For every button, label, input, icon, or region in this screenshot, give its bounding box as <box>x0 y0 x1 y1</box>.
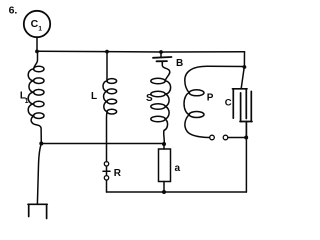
wire: C1 to top bus <box>36 38 38 52</box>
junction dot on right bus at P tap <box>243 65 247 69</box>
svg-text:B: B <box>176 58 183 69</box>
junction dot at box bottom <box>162 190 166 194</box>
svg-text:S: S <box>146 93 153 104</box>
svg-text:C: C <box>225 98 232 109</box>
svg-text:P: P <box>207 92 214 103</box>
junction dot at L1 bottom <box>39 142 43 146</box>
capacitor B <box>153 52 172 64</box>
inductor L1 <box>28 51 44 143</box>
resistor box a <box>159 144 171 192</box>
wire: top horizontal bus <box>37 50 245 53</box>
svg-text:R: R <box>114 168 122 179</box>
wire: ground stem <box>37 144 41 204</box>
svg-text:6.: 6. <box>9 5 18 17</box>
wire: terminal to right bus <box>228 137 246 139</box>
wire: middle horizontal <box>40 143 164 145</box>
svg-text:1: 1 <box>25 98 29 105</box>
meter C1 (circle symbol) <box>24 11 50 37</box>
terminal circle at P end <box>210 135 215 140</box>
junction dot on right bus at terminals <box>244 136 248 140</box>
wire: right bus lower <box>245 138 247 193</box>
svg-text:L: L <box>91 91 97 102</box>
terminal circle at switch gap <box>223 135 228 140</box>
capacitor C <box>233 89 253 138</box>
ground electrode symbol <box>28 204 47 218</box>
junction dot node at B <box>159 50 163 54</box>
detector R <box>103 144 110 193</box>
svg-text:a: a <box>175 163 181 174</box>
junction dot at S bottom / box top <box>162 142 166 146</box>
inductor P <box>184 66 244 137</box>
junction dot node at C1/L1 <box>35 50 39 54</box>
svg-text:1: 1 <box>38 26 42 33</box>
wire: right bus upper <box>241 52 244 89</box>
junction dot node at L <box>105 50 109 54</box>
inductor L <box>103 52 117 144</box>
inductor S <box>151 62 171 144</box>
label L1 <box>20 91 29 106</box>
wire: bottom horizontal <box>107 191 247 193</box>
